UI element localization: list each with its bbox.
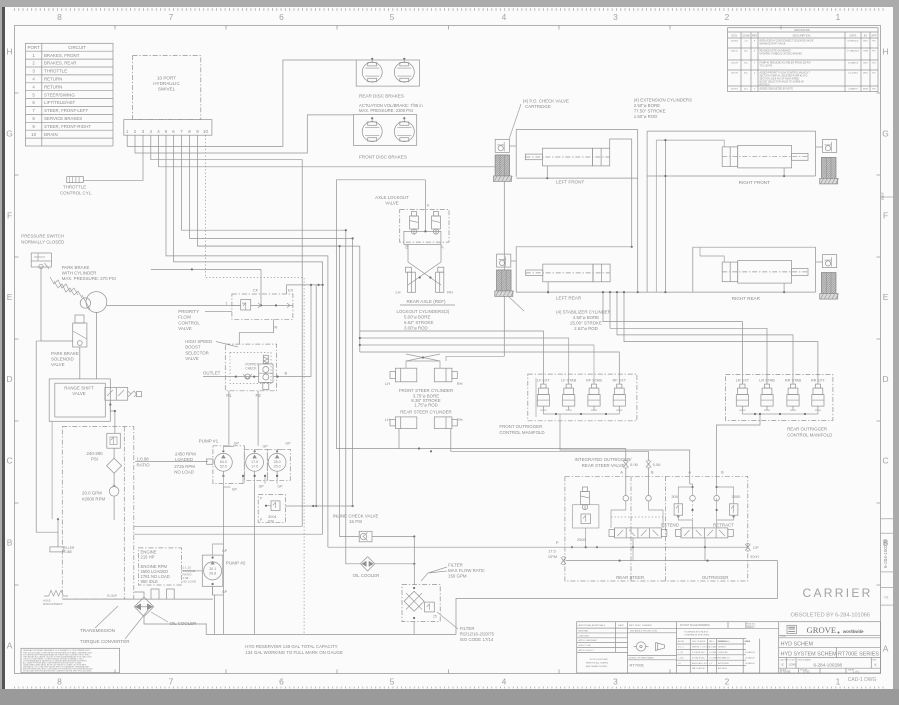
svg-text:CAD-1 DWG: CAD-1 DWG: [848, 677, 877, 683]
axle lockout inner box: [404, 231, 441, 244]
park brake cylinder circle: [86, 292, 107, 313]
wire to front brakes: [135, 115, 353, 153]
svg-text:MECHAN: MECHAN: [579, 630, 589, 633]
svg-text:CONTROL CYL.: CONTROL CYL.: [60, 191, 92, 196]
svg-text:8-FEB2002: 8-FEB2002: [847, 41, 859, 43]
svg-text:1: 1: [836, 12, 841, 22]
svg-text:OIL COOLER: OIL COOLER: [353, 573, 380, 578]
svg-text:VALVE: VALVE: [72, 391, 86, 396]
svg-text:RETURN: RETURN: [44, 77, 62, 82]
svg-text:REAR OUTRIGGER: REAR OUTRIGGER: [787, 427, 827, 432]
svg-text:30.1: 30.1: [209, 567, 216, 571]
svg-text:B: B: [721, 470, 724, 475]
pump2 suction: [214, 595, 216, 634]
port circuit table: [26, 43, 114, 146]
wire cooler loop: [144, 617, 206, 625]
svg-text:P: P: [556, 540, 559, 545]
wire B-port vertical: [310, 285, 312, 377]
svg-text:2: 2: [725, 12, 730, 22]
right front cylinder: [738, 145, 792, 168]
svg-text:6-284-100298: 6-284-100298: [814, 662, 843, 667]
svg-text:ANGULAR ± 0.5°: ANGULAR ± 0.5°: [692, 662, 708, 665]
rear steer spool: [615, 528, 662, 538]
svg-text:C: C: [882, 456, 888, 466]
wire port10 drain dotted: [206, 135, 305, 634]
svg-text:160141: 160141: [731, 51, 739, 53]
svg-text:BOOST: BOOST: [185, 345, 201, 350]
svg-text:CARRIER: CARRIER: [803, 586, 873, 600]
svg-text:64.0: 64.0: [220, 460, 227, 464]
svg-text:B: B: [7, 538, 13, 548]
wire lockout pilot: [424, 180, 426, 232]
svg-text:DRO: DRO: [863, 63, 868, 65]
svg-text:01: 01: [884, 595, 889, 600]
svg-text:PRIORITY: PRIORITY: [178, 309, 199, 314]
svg-text:± .02°: ± .02°: [678, 652, 683, 654]
front steer crossing wires: [406, 361, 440, 368]
svg-text:2.62"⌀ ROD: 2.62"⌀ ROD: [574, 326, 598, 331]
svg-text:H: H: [6, 47, 12, 57]
manifold valve RF EXT: [617, 384, 622, 388]
svg-text:LF STAB: LF STAB: [561, 379, 577, 383]
oil cooler diamond: [360, 557, 374, 571]
svg-text:NO LOAD: NO LOAD: [174, 470, 194, 475]
svg-text:APPL D MECHAN: APPL D MECHAN: [579, 639, 597, 642]
svg-text:CONTROL MANIFOLD: CONTROL MANIFOLD: [499, 430, 544, 435]
svg-text:A: A: [883, 644, 889, 654]
left rear stabilizer cylinder: [497, 270, 511, 293]
svg-text:GROVE: GROVE: [807, 625, 837, 635]
svg-text:FRONT OUTRIGGER: FRONT OUTRIGGER: [499, 424, 542, 429]
svg-text:IN: IN: [273, 325, 277, 330]
wire P1 P2 to pump1: [228, 391, 230, 446]
svg-text:FLOW: FLOW: [178, 315, 192, 320]
svg-text:TORQUE CONVERTER: TORQUE CONVERTER: [80, 639, 130, 644]
svg-text:14MAY97: 14MAY97: [848, 88, 858, 91]
svg-text:RT700E SERIES: RT700E SERIES: [838, 651, 879, 657]
svg-text:ECN: ECN: [732, 33, 738, 37]
svg-text:WITH CYLINDER: WITH CYLINDER: [62, 271, 97, 276]
right rear check cartridge: [823, 255, 837, 268]
svg-text:± 1°: ± 1°: [709, 663, 713, 665]
filter box: [402, 585, 440, 622]
tolerance grid: [677, 627, 779, 629]
wire bundle m2: [315, 285, 317, 506]
svg-text:CAD FILE CODE: CAD FILE CODE: [780, 658, 795, 661]
svg-text:BOOST SELECTOR VALVE TO AGREE: BOOST SELECTOR VALVE TO AGREE W/: [760, 81, 805, 84]
svg-text:16-JAN-06: 16-JAN-06: [745, 662, 755, 665]
svg-text:215 HP: 215 HP: [141, 555, 155, 560]
orifice symbols top: [623, 461, 628, 468]
front outrigger control manifold: [528, 374, 637, 421]
wire right inner vertical: [664, 140, 666, 292]
lockout crossing lines: [407, 244, 409, 262]
svg-text:MATERIALS: MATERIALS: [718, 640, 731, 643]
svg-text:REAR AXLE (REF): REAR AXLE (REF): [406, 299, 446, 304]
svg-text:RF EXT: RF EXT: [613, 379, 627, 383]
svg-text:CP: CP: [753, 545, 759, 550]
svg-text:16-JAN-06: 16-JAN-06: [745, 656, 755, 659]
svg-text:FILTER: FILTER: [448, 563, 463, 568]
svg-text:RETURN: RETURN: [44, 84, 62, 89]
wire cooler out: [375, 563, 415, 565]
wire rear manifold to integrated B: [716, 414, 760, 476]
sump bottom line: [62, 598, 213, 600]
svg-text:VALVE: VALVE: [51, 362, 65, 367]
svg-text:GP: GP: [232, 488, 238, 492]
svg-text:GP: GP: [263, 445, 269, 449]
projection column: [676, 622, 678, 673]
left front cylinder: [542, 148, 592, 166]
svg-text:SERVICE BRAKES: SERVICE BRAKES: [44, 116, 82, 121]
svg-text:300: 300: [671, 494, 678, 499]
svg-text:CIRCUIT: CIRCUIT: [68, 45, 86, 50]
svg-text:5.00"⌀ BORE: 5.00"⌀ BORE: [404, 315, 430, 320]
general notes block: [21, 648, 120, 672]
approvals column: [627, 622, 629, 673]
svg-text:ZONE: ZONE: [742, 33, 749, 37]
svg-text:APP MFG: APP MFG: [718, 667, 727, 670]
svg-text:3004: 3004: [268, 515, 276, 519]
park brake spring: [50, 277, 78, 295]
wire P into valve: [561, 546, 748, 548]
outrigger section ports: [690, 495, 696, 501]
svg-text:E: E: [883, 292, 889, 302]
svg-text:TRANSMISSION: TRANSMISSION: [80, 628, 115, 633]
manifold valve LF STAB: [566, 384, 571, 388]
front steer cylinder: [395, 368, 416, 382]
svg-text:LR STAB: LR STAB: [759, 379, 775, 383]
lockout cylinder RH: [436, 272, 444, 292]
wire port7 to oil cooler branch: [182, 135, 346, 230]
svg-text:NONE: NONE: [783, 670, 791, 674]
svg-text:REVISED NOTE ON BRAKES: REVISED NOTE ON BRAKES: [760, 50, 792, 53]
engine to pump2 link: [181, 570, 202, 572]
scan dark left edge: [2, 7, 5, 689]
svg-text:25.00" STROKE: 25.00" STROKE: [570, 321, 602, 326]
svg-text:4.50"⌀ BORE: 4.50"⌀ BORE: [573, 315, 599, 320]
projection symbol cone: [656, 643, 665, 651]
filler tube: [36, 341, 58, 532]
right rear stabilizer cylinder: [822, 273, 836, 296]
pump1 gp stubs: [223, 447, 233, 452]
svg-text:57.63: 57.63: [803, 670, 810, 674]
lockout cylinder LH: [407, 272, 415, 292]
svg-text:7: 7: [169, 12, 174, 22]
svg-text:100761: 100761: [731, 89, 739, 91]
svg-text:4: 4: [502, 12, 507, 22]
svg-text:SUMP: SUMP: [107, 594, 118, 598]
svg-text:DESIGN: DESIGN: [718, 647, 726, 649]
svg-text:REVISIONS: REVISIONS: [794, 28, 809, 32]
svg-text:TFC: TFC: [872, 51, 877, 53]
manifold valve RF STAB: [591, 384, 596, 388]
svg-text:VALVE: VALVE: [385, 201, 399, 206]
wire rear bottom bus: [516, 291, 815, 293]
svg-text:OUTRIGGER: OUTRIGGER: [702, 575, 729, 580]
svg-text:#2000 RPM: #2000 RPM: [82, 497, 106, 502]
svg-text:3000: 3000: [732, 494, 742, 499]
svg-text:DO NOT SCALE DRAWING: DO NOT SCALE DRAWING: [680, 624, 710, 627]
svg-text:PORT: PORT: [28, 45, 40, 50]
svg-text:± 1.5MM: ± 1.5MM: [709, 647, 717, 649]
title block outline: [577, 622, 881, 673]
svg-text:LIFT/TELE/HST: LIFT/TELE/HST: [44, 100, 76, 105]
svg-text:DEC. PLACES: DEC. PLACES: [692, 640, 706, 643]
svg-text:RIGHT REAR: RIGHT REAR: [732, 296, 761, 301]
svg-text:FRONT DISC BRAKES: FRONT DISC BRAKES: [359, 155, 407, 160]
svg-text:OUTLET: OUTLET: [203, 371, 221, 376]
svg-text:REV: REV: [752, 33, 758, 37]
svg-text:APP: APP: [871, 33, 876, 37]
svg-text:B: B: [285, 371, 288, 376]
right margin strip: [881, 196, 894, 198]
svg-text:VALVE: VALVE: [185, 356, 199, 361]
svg-text:RATIO: RATIO: [137, 462, 151, 467]
manifold valve RR EXT: [815, 384, 820, 388]
svg-text:12345: 12345: [789, 663, 797, 667]
svg-text:2725 RPM: 2725 RPM: [174, 464, 195, 469]
pump1 bottom dots bus: [242, 476, 244, 484]
wire priority IN: [239, 319, 273, 344]
transmission box: [62, 427, 134, 599]
svg-text:LH: LH: [395, 290, 400, 295]
svg-text:1.50"⌀ ROD: 1.50"⌀ ROD: [634, 114, 658, 119]
wire port9 to front manifold stair: [198, 135, 360, 352]
grove emblem: [787, 625, 796, 633]
left rear cylinder: [543, 264, 593, 282]
svg-text:CONTROL MANIFOLD: CONTROL MANIFOLD: [787, 433, 832, 438]
svg-text:REPLACED HYD DISCONNECT SOLENO: REPLACED HYD DISCONNECT SOLENOID VALVE: [760, 40, 814, 43]
10 port hydraulic swivel: [133, 56, 201, 120]
svg-text:3 PLACE DEC: 3 PLACE DEC: [692, 656, 706, 659]
wire P line to integrated valve: [328, 546, 561, 548]
svg-text:150403: 150403: [731, 41, 739, 43]
CP orifice: [745, 544, 750, 551]
right front check cartridge: [823, 139, 837, 152]
svg-text:R ± .4: R ± .4: [678, 647, 684, 649]
rear outrigger control manifold: [725, 375, 833, 421]
svg-text:(4) EXTENSION CYLINDERS: (4) EXTENSION CYLINDERS: [634, 98, 692, 103]
svg-text:G: G: [882, 129, 889, 139]
svg-text:1:0.98: 1:0.98: [137, 457, 150, 462]
svg-text:7: 7: [169, 677, 174, 687]
svg-text:RELIABILITY: RELIABILITY: [718, 656, 731, 659]
svg-text:REMOVE ALL BURRS: REMOVE ALL BURRS: [586, 662, 609, 665]
svg-text:150 GPM: 150 GPM: [448, 574, 467, 579]
svg-text:PUMP #2: PUMP #2: [226, 561, 246, 566]
svg-text:10 PORT: 10 PORT: [157, 76, 176, 81]
projection symbol circle: [636, 642, 645, 651]
svg-text:17.0: 17.0: [251, 465, 258, 469]
svg-text:CHECKED: CHECKED: [718, 652, 728, 654]
svg-text:LR EXT: LR EXT: [736, 379, 750, 383]
wire T line from park brake: [107, 304, 241, 306]
svg-text:DRAIN: DRAIN: [44, 132, 58, 137]
svg-text:MODEL OR PART NAME: MODEL OR PART NAME: [629, 656, 654, 659]
svg-text:NO LOAD: NO LOAD: [183, 580, 197, 584]
svg-text:REAR DISC BRAKES: REAR DISC BRAKES: [359, 94, 404, 99]
zone ticks left/right: [15, 92, 19, 94]
svg-text:2500: 2500: [577, 537, 587, 542]
svg-text:HYD RESERVOIR 148 GAL TOTAL CA: HYD RESERVOIR 148 GAL TOTAL CAPACITY: [245, 644, 337, 649]
svg-text:GP: GP: [285, 442, 291, 446]
svg-text:2450 RPM: 2450 RPM: [175, 452, 196, 457]
manifold valve LR STAB: [764, 384, 769, 388]
svg-text:17.5: 17.5: [251, 460, 258, 464]
svg-text:GP: GP: [234, 442, 240, 446]
wire axle lockout feed: [336, 179, 425, 181]
svg-text:DISCONNECT: DISCONNECT: [43, 602, 63, 606]
svg-text:CF: CF: [253, 288, 259, 293]
svg-text:PUMP #1: PUMP #1: [199, 439, 219, 444]
svg-text:RH: RH: [447, 290, 453, 295]
svg-text:STEER/SWING: STEER/SWING: [44, 92, 75, 97]
svg-text:E: E: [7, 292, 13, 302]
svg-text:134 GAL WORKING TO FULL MARK O: 134 GAL WORKING TO FULL MARK ON GAUGE: [245, 650, 343, 655]
svg-text:5: 5: [390, 677, 395, 687]
svg-text:25: 25: [433, 615, 437, 619]
wire rear steer to integrated valve A: [399, 429, 626, 449]
revision table: [728, 28, 878, 92]
svg-text:ALIGN: ALIGN: [678, 640, 685, 643]
svg-text:77.50" STROKE: 77.50" STROKE: [634, 109, 666, 114]
wire port4 to mid bundle: [151, 135, 302, 526]
svg-text:H: H: [882, 47, 888, 57]
svg-text:6: 6: [279, 12, 284, 22]
svg-text:NORMALLY CLOSED: NORMALLY CLOSED: [21, 240, 64, 245]
engine box: [138, 548, 181, 585]
svg-text:DESCRIPTION: DESCRIPTION: [793, 33, 811, 37]
svg-text:1: 1: [836, 677, 841, 687]
svg-text:RIGHT FRONT: RIGHT FRONT: [739, 180, 770, 185]
240-280 psi relief valve: [107, 433, 121, 448]
svg-text:ADDED OBSOLETED BY NOTE: ADDED OBSOLETED BY NOTE: [760, 88, 794, 91]
svg-text:± 0.5MM: ± 0.5MM: [709, 652, 717, 654]
svg-text:10: 10: [203, 129, 208, 134]
wire return loop bottom right: [456, 561, 778, 635]
svg-text:DATE: DATE: [618, 624, 624, 627]
left rear cylinder loop: [516, 247, 632, 292]
svg-text:27-JAN2000: 27-JAN2000: [847, 50, 860, 53]
svg-text:TITLE: TITLE: [780, 636, 786, 638]
svg-text:D: D: [882, 374, 888, 384]
svg-text:CARTRIDGE: CARTRIDGE: [525, 104, 551, 109]
svg-text:DRO: DRO: [863, 41, 868, 43]
svg-text:LF EXT: LF EXT: [537, 379, 551, 383]
manifold valve RR STAB: [790, 384, 795, 388]
svg-text:G: G: [6, 129, 13, 139]
svg-text:ADDITIONAL APPROVALS: ADDITIONAL APPROVALS: [579, 624, 606, 627]
svg-text:EXTEND: EXTEND: [661, 523, 679, 528]
exh bus: [566, 560, 778, 562]
wire port4b to front steer feed: [159, 135, 505, 356]
svg-text:THROTTLE: THROTTLE: [44, 69, 67, 74]
svg-text:D: D: [6, 374, 12, 384]
svg-text:HIGH SPEED: HIGH SPEED: [185, 339, 212, 344]
grove logo box: [778, 622, 780, 673]
rear manifold bottom bus: [742, 410, 818, 414]
svg-text:1.75"⌀ ROD: 1.75"⌀ ROD: [414, 403, 438, 408]
svg-text:CWB: CWB: [863, 51, 869, 53]
svg-text:3RD ANGLE PROJECTION: 3RD ANGLE PROJECTION: [630, 630, 657, 633]
linkage spring: [49, 590, 64, 596]
svg-text:PUMP #1 REDUCED A/C RELIEF FRO: PUMP #1 REDUCED A/C RELIEF FROM 150 PSI: [760, 62, 811, 65]
left section relief: [583, 487, 588, 492]
svg-text:VALVE: VALVE: [178, 326, 192, 331]
svg-text:STEER, FRONT-LEFT: STEER, FRONT-LEFT: [44, 108, 88, 113]
svg-text:52.0: 52.0: [220, 465, 227, 469]
svg-text:TFC: TFC: [872, 63, 877, 65]
svg-text:PSI: PSI: [268, 520, 274, 524]
svg-text:MAX. PRESSURE: 270 PSI: MAX. PRESSURE: 270 PSI: [62, 276, 116, 281]
svg-text:RH: RH: [457, 381, 463, 386]
svg-text:6.62" STROKE: 6.62" STROKE: [404, 320, 433, 325]
wire EX to bundle: [287, 285, 323, 294]
svg-text:GPM: GPM: [548, 554, 557, 559]
right rear cylinder loop: [693, 247, 816, 292]
svg-text:ADDED PRIORITY FLOW CONTROL VA: ADDED PRIORITY FLOW CONTROL VALVE & T: [760, 72, 811, 75]
svg-text:TO 1-20 PSI: TO 1-20 PSI: [760, 66, 773, 68]
svg-text:± 0.25MM: ± 0.25MM: [709, 657, 718, 659]
wire port5 to P-line bundle: [166, 135, 328, 547]
svg-text:HYDRAULIC: HYDRAULIC: [153, 81, 180, 86]
svg-text:A: A: [688, 470, 691, 475]
top perforation ruler: [14, 8, 886, 10]
svg-text:BY: BY: [864, 33, 868, 37]
svg-text:124079: 124079: [731, 63, 739, 65]
svg-text:PSI: PSI: [91, 457, 98, 462]
svg-text:LOCKOUT CYLINDERS(2): LOCKOUT CYLINDERS(2): [397, 309, 450, 314]
left front check cartridge: [495, 139, 509, 152]
svg-text:AND SHARP EDGES.: AND SHARP EDGES.: [586, 665, 608, 668]
svg-text:MAX FLOW RATE:: MAX FLOW RATE:: [448, 568, 485, 573]
svg-text:10-JUN01: 10-JUN01: [848, 73, 859, 75]
priority flow control valve: [232, 294, 293, 319]
svg-text:(4) STABILIZER CYLINDER: (4) STABILIZER CYLINDER: [556, 310, 611, 315]
svg-text:DWG NUMBER: DWG NUMBER: [798, 659, 812, 661]
svg-text:HYD SCHEM: HYD SCHEM: [781, 642, 814, 648]
svg-text:W/RANGE SHIFT VALVE: W/RANGE SHIFT VALVE: [760, 43, 786, 46]
svg-text:psi: psi: [242, 301, 246, 305]
svg-text:OTHERWISE SPECIFIED: OTHERWISE SPECIFIED: [684, 634, 710, 636]
wire range valve down: [110, 400, 115, 433]
svg-text:TFC: TFC: [872, 89, 877, 91]
svg-text:N/A TO ASTM: N/A TO ASTM: [692, 667, 705, 670]
svg-text:SWIVEL: SWIVEL: [158, 87, 176, 92]
svg-text:RH: RH: [457, 417, 463, 422]
svg-text:RR STAB: RR STAB: [785, 379, 802, 383]
svg-text:APPROVED: APPROVED: [718, 662, 730, 665]
svg-text:4: 4: [502, 677, 507, 687]
svg-text:2.50"⌀ BORE: 2.50"⌀ BORE: [634, 103, 660, 108]
svg-text:GP: GP: [259, 485, 265, 489]
svg-text:BRAKES, FRONT: BRAKES, FRONT: [44, 53, 80, 58]
svg-text:C: C: [6, 456, 12, 466]
drive shaft connector: [207, 459, 213, 464]
svg-text:A: A: [620, 470, 623, 475]
svg-text:OIL COOLER: OIL COOLER: [170, 621, 197, 626]
svg-text:ELECT CHK: ELECT CHK: [579, 645, 592, 647]
svg-text:DATE: DATE: [745, 640, 751, 643]
svg-text:REAR STEER: REAR STEER: [616, 575, 644, 580]
wire rear manifold stairs: [603, 292, 742, 384]
svg-text:EXH: EXH: [751, 554, 759, 559]
svg-text:SELECTOR: SELECTOR: [185, 350, 209, 355]
svg-text:THROTTLE: THROTTLE: [63, 185, 86, 190]
svg-text:LH: LH: [385, 381, 390, 386]
pump #2: [202, 555, 223, 586]
